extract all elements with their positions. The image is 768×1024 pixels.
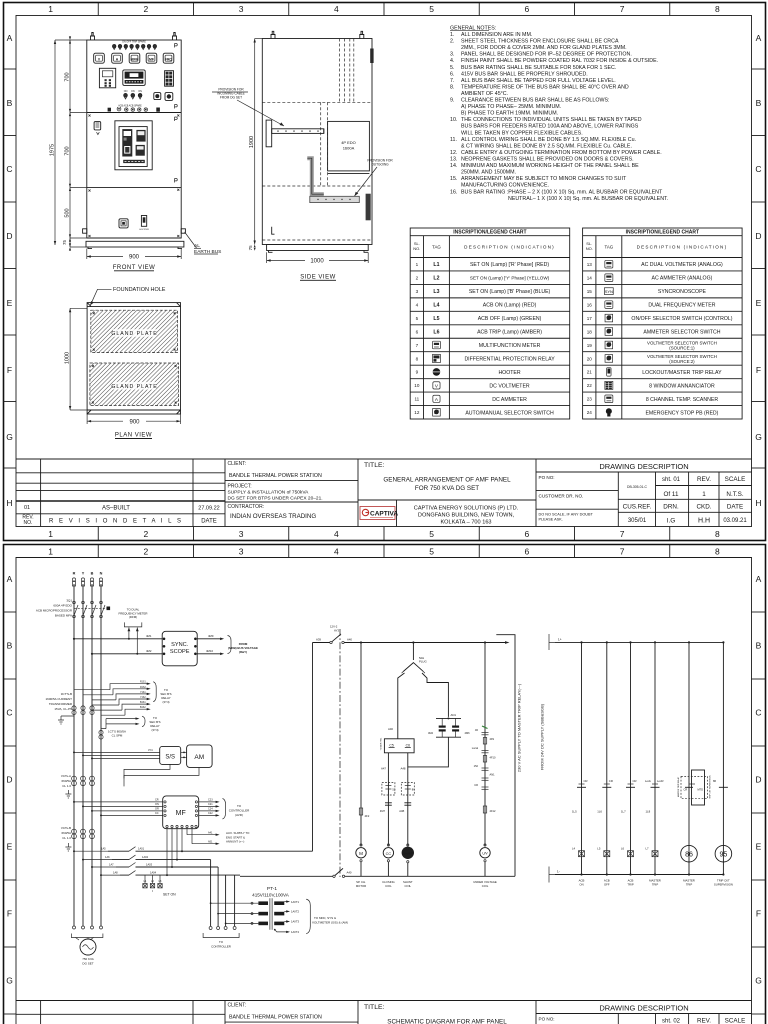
svg-text:MTD: MTD <box>698 788 704 792</box>
spring charge motor branch <box>360 643 362 846</box>
svg-text:AM: AM <box>194 754 204 761</box>
svg-text:B1S1: B1S1 <box>140 702 146 704</box>
svg-text:HOOTER: HOOTER <box>498 370 520 376</box>
svg-text:WILL BE TAKEN BY COPPER FLEXIB: WILL BE TAKEN BY COPPER FLEXIBLE CABLES. <box>461 130 583 136</box>
UV coil <box>484 844 486 846</box>
dim 900 <box>86 249 88 259</box>
svg-text:AMMETER SELECTOR SWITCH: AMMETER SELECTOR SWITCH <box>643 330 720 336</box>
DC supply bracket L+ <box>549 634 555 650</box>
svg-text:95: 95 <box>720 852 728 859</box>
svg-text:AY3: AY3 <box>334 629 340 633</box>
general notes text block <box>450 26 668 202</box>
svg-text:A: A <box>7 33 13 43</box>
svg-text:BANDLE THERMAL POWER STATION: BANDLE THERMAL POWER STATION <box>229 473 322 479</box>
svg-text:2.: 2. <box>450 39 454 45</box>
svg-text:VOLTMETER (S/S) & (AM): VOLTMETER (S/S) & (AM) <box>312 921 348 925</box>
shunt trip coil <box>407 844 409 846</box>
svg-text:FINISH PAINT SHALL BE POWDER C: FINISH PAINT SHALL BE POWDER COATED RAL … <box>461 58 658 64</box>
svg-text:ACB MICROPROCESSOR: ACB MICROPROCESSOR <box>36 609 73 613</box>
svg-text:MF: MF <box>149 57 154 61</box>
door handle <box>370 49 373 64</box>
svg-text:1A7: 1A7 <box>109 863 114 867</box>
meter buttons row <box>94 53 105 63</box>
svg-text:5: 5 <box>429 529 434 539</box>
svg-text:4M1: 4M1 <box>146 634 152 638</box>
svg-text:DESCRIPTION (INDICATION): DESCRIPTION (INDICATION) <box>464 245 555 250</box>
svg-text:CC: CC <box>386 852 392 856</box>
svg-text:REV.: REV. <box>697 476 711 483</box>
svg-text:CKD.: CKD. <box>696 504 711 511</box>
svg-text:2: 2 <box>144 4 149 14</box>
VT group A label <box>61 774 71 788</box>
svg-text:TO AVR TML: TO AVR TML <box>380 737 383 751</box>
svg-text:G: G <box>755 976 762 986</box>
svg-text:NO.: NO. <box>413 246 420 251</box>
bottom door components <box>119 219 128 228</box>
CT secondary wires to relay <box>110 684 149 690</box>
svg-text:HOOTER: HOOTER <box>139 229 149 231</box>
svg-text:L-: L- <box>557 870 560 874</box>
svg-text:L6: L6 <box>433 330 439 336</box>
svg-text:ALL DIMENSION ARE IN MM.: ALL DIMENSION ARE IN MM. <box>461 32 532 38</box>
svg-text:27.09.22: 27.09.22 <box>198 506 219 512</box>
indicating lamp L5 <box>604 851 610 857</box>
svg-text:12: 12 <box>414 410 420 415</box>
svg-text:A48: A48 <box>401 767 406 771</box>
svg-text:17: 17 <box>587 316 593 321</box>
svg-text:3: 3 <box>239 529 244 539</box>
svg-text:L4: L4 <box>433 303 439 309</box>
closing coil CC <box>387 844 389 846</box>
svg-text:EMERGENCY STOP PB (RED): EMERGENCY STOP PB (RED) <box>645 410 718 416</box>
svg-text:11.: 11. <box>450 137 457 143</box>
svg-text:14.: 14. <box>450 163 457 169</box>
svg-text:DUAL FREQUENCY METER: DUAL FREQUENCY METER <box>648 303 715 309</box>
svg-text:U/V: U/V <box>482 852 488 856</box>
svg-text:FRQ: FRQ <box>165 57 173 61</box>
svg-text:H.H: H.H <box>698 518 710 525</box>
svg-text:A51: A51 <box>208 840 213 843</box>
wire R to sync scope <box>74 638 162 640</box>
sheet border outer <box>4 3 766 541</box>
arrows to DFM <box>128 628 130 639</box>
svg-text:AS–BUILT: AS–BUILT <box>102 506 130 512</box>
svg-text:4F12: 4F12 <box>490 809 496 813</box>
MF right pins to controller <box>195 801 197 803</box>
svg-text:4M2: 4M2 <box>146 649 152 653</box>
svg-text:OFF: OFF <box>604 883 610 887</box>
wire rail 1A01 <box>108 850 129 852</box>
svg-text:AUTO/MANUAL SELECTOR SWITCH: AUTO/MANUAL SELECTOR SWITCH <box>465 410 554 416</box>
door divider 2 <box>87 186 181 188</box>
svg-text:PO NO:: PO NO: <box>539 475 555 480</box>
dim 1900 <box>254 39 256 245</box>
svg-text:TRIP: TRIP <box>686 883 693 887</box>
svg-text:8: 8 <box>715 547 720 557</box>
svg-text:16.: 16. <box>450 189 457 195</box>
door hinge marks P <box>175 44 178 48</box>
indicating lamp L7 <box>652 851 658 857</box>
svg-text:F: F <box>756 909 761 919</box>
svg-text:C21: C21 <box>208 803 213 806</box>
svg-text:G: G <box>755 432 762 442</box>
svg-text:SCALE: SCALE <box>725 476 746 483</box>
svg-text:MFM: MFM <box>131 57 139 61</box>
svg-text:10: 10 <box>414 383 420 388</box>
svg-text:TO: TO <box>237 804 242 808</box>
svg-text:3Q1: 3Q1 <box>66 599 72 603</box>
svg-text:1A01: 1A01 <box>138 847 145 851</box>
CT 3CTs-B label <box>45 692 72 711</box>
svg-text:CR: CR <box>584 779 588 783</box>
indicator lamps L1-L6 row <box>112 44 116 48</box>
svg-text:VCTs-B: VCTs-B <box>61 826 71 830</box>
ACB tie bar <box>74 607 107 609</box>
svg-text:ANNUNT (+--): ANNUNT (+--) <box>226 840 244 844</box>
svg-text:A39: A39 <box>316 638 321 642</box>
svg-text:13: 13 <box>587 262 593 267</box>
svg-text:6: 6 <box>525 529 530 539</box>
protection relay <box>99 68 115 88</box>
svg-text:75: 75 <box>62 240 67 246</box>
svg-text:SET ON (Lamp) ['Y' Phase] (YEL: SET ON (Lamp) ['Y' Phase] (YELLOW) <box>470 276 550 281</box>
svg-text:CAPTIVA: CAPTIVA <box>370 511 398 518</box>
svg-text:CL 1.0: CL 1.0 <box>62 784 71 788</box>
side hinges <box>83 229 87 233</box>
ACB 3Q1 switch contacts <box>73 601 76 604</box>
svg-text:4: 4 <box>416 302 419 307</box>
svg-text:TRIP: TRIP <box>652 883 659 887</box>
svg-text:GLAND PLATE: GLAND PLATE <box>111 384 157 390</box>
door divider 1 <box>87 112 181 114</box>
coil branch verticals <box>387 753 389 846</box>
svg-text:13.: 13. <box>450 157 457 163</box>
svg-text:H: H <box>755 498 761 508</box>
aux contacts 52a 52b <box>382 783 395 796</box>
svg-text:DB-305-01-C: DB-305-01-C <box>627 485 648 489</box>
svg-text:Local: Local <box>472 746 479 750</box>
aux supply wires <box>186 828 188 835</box>
MF multifunction meter <box>163 796 199 829</box>
svg-text:SYN: SYN <box>605 289 613 294</box>
svg-text:L5: L5 <box>433 316 439 322</box>
base channel <box>86 241 184 247</box>
MF bottom wires to control rails <box>166 828 168 876</box>
svg-text:TRIP: TRIP <box>627 883 634 887</box>
support steps <box>307 158 324 194</box>
svg-text:E: E <box>7 842 13 852</box>
svg-text:AC AMMETER (ANALOG): AC AMMETER (ANALOG) <box>652 276 713 282</box>
svg-text:FROM 24V DC SUPPLY (SBB&SGB): FROM 24V DC SUPPLY (SBB&SGB) <box>540 703 545 770</box>
svg-text:N: N <box>100 572 103 576</box>
rail taps from buses <box>74 851 120 875</box>
svg-text:DRN.: DRN. <box>663 504 679 511</box>
svg-text:L6: L6 <box>621 847 625 851</box>
svg-text:R1S1: R1S1 <box>140 682 146 684</box>
svg-text:CL 1.0: CL 1.0 <box>62 836 71 840</box>
svg-text:FOR 750 KVA DG SET: FOR 750 KVA DG SET <box>415 485 479 492</box>
svg-text:BASED MFA: BASED MFA <box>55 614 72 618</box>
svg-text:(3Y4): (3Y4) <box>151 728 158 732</box>
svg-text:C: C <box>6 708 12 718</box>
svg-text:1000: 1000 <box>65 352 71 364</box>
bracket MDB <box>228 636 232 654</box>
svg-text:C23: C23 <box>208 799 213 802</box>
svg-text:ON: ON <box>124 90 128 93</box>
svg-text:CC: CC <box>155 812 159 815</box>
svg-text:MANUFACTURING CONVENIENCE.: MANUFACTURING CONVENIENCE. <box>461 183 549 189</box>
cubicle outline <box>262 39 372 245</box>
svg-text:Y1S1: Y1S1 <box>140 692 146 694</box>
isolator switch AY3 <box>330 641 332 643</box>
svg-text:F: F <box>756 365 761 375</box>
wire PT primary tap 3 <box>226 922 259 924</box>
lifting eyebolt left <box>91 33 95 41</box>
svg-text:ACB TRIP (Lamp) (AMBER): ACB TRIP (Lamp) (AMBER) <box>477 330 542 336</box>
contact CR <box>602 786 611 788</box>
phase bus B <box>91 584 93 926</box>
svg-text:S/S: S/S <box>165 755 175 761</box>
cable duct dashed <box>262 39 372 241</box>
S/S selector <box>160 746 181 764</box>
svg-text:MF: MF <box>176 810 186 817</box>
svg-text:3CT'S-B: 3CT'S-B <box>61 692 72 696</box>
svg-text:C22: C22 <box>208 812 213 815</box>
wire AM to VT taps <box>124 767 199 786</box>
svg-text:3: 3 <box>416 289 419 294</box>
svg-text:INSCRIPTION/LEGEND CHART: INSCRIPTION/LEGEND CHART <box>453 229 526 235</box>
earth hook <box>272 227 275 235</box>
door stiffener <box>366 194 371 221</box>
svg-text:BUS BARS FOR FEEDERS RATED 100: BUS BARS FOR FEEDERS RATED 100A AND ABOV… <box>461 124 639 130</box>
svg-text:6: 6 <box>416 329 419 334</box>
indicating lamp L4 <box>579 851 585 857</box>
motor M <box>360 844 362 846</box>
svg-text:B: B <box>756 98 762 108</box>
svg-text:3Y4: 3Y4 <box>148 748 153 752</box>
svg-text:ALL BUS BAR SHALL BE TAPPED FO: ALL BUS BAR SHALL BE TAPPED FOR FULL VOL… <box>461 78 616 84</box>
lamps row 2 <box>124 93 128 97</box>
svg-text:L4: L4 <box>572 847 576 851</box>
wires sync scope to MDB bus voltage <box>197 638 222 640</box>
VT group B label <box>61 826 71 840</box>
svg-text:CLEARANCE BETWEEN BUS BAR SHAL: CLEARANCE BETWEEN BUS BAR SHALL BE AS FO… <box>461 98 609 104</box>
svg-text:L5: L5 <box>597 847 601 851</box>
svg-text:15: 15 <box>587 289 593 294</box>
lamp circuit branch 6 <box>722 642 724 874</box>
svg-text:SHEET STEEL THICKNESS FOR ENCL: SHEET STEEL THICKNESS FOR ENCLOSURE SHAL… <box>461 39 619 45</box>
svg-text:3.: 3. <box>450 52 454 58</box>
svg-text:TAG: TAG <box>432 245 441 250</box>
svg-text:8: 8 <box>715 529 720 539</box>
svg-text:9: 9 <box>416 370 419 375</box>
title block sheet 2 (partial) <box>16 1001 752 1024</box>
svg-text:A40: A40 <box>347 638 352 642</box>
sheet border outer <box>4 545 766 1024</box>
svg-text:F: F <box>7 365 12 375</box>
svg-text:2MM., FOR DOOR & COVER 2MM. AN: 2MM., FOR DOOR & COVER 2MM. AND FOR GLAN… <box>461 45 627 51</box>
svg-text:ARRANGEMENT MAY BE SUBJECT TO: ARRANGEMENT MAY BE SUBJECT TO MINOR CHAN… <box>461 176 627 182</box>
svg-text:ON/OFF SELECTOR SWITCH (CONTRO: ON/OFF SELECTOR SWITCH (CONTROL) <box>631 316 732 322</box>
svg-text:Y1S2: Y1S2 <box>140 697 146 699</box>
generator G1 <box>73 926 76 929</box>
svg-text:CL SPM: CL SPM <box>112 734 123 738</box>
svg-text:1A6: 1A6 <box>105 855 110 859</box>
svg-text:D: D <box>755 775 761 785</box>
wire rail 1A03 <box>116 866 129 868</box>
svg-text:D: D <box>755 231 761 241</box>
sheet border inner <box>16 558 752 1024</box>
svg-text:700: 700 <box>65 146 71 155</box>
svg-text:L3: L3 <box>433 289 439 295</box>
earth ct common <box>58 716 74 724</box>
contact CR <box>626 786 635 788</box>
svg-text:A41: A41 <box>208 831 213 834</box>
svg-text:BANDLE THERMAL POWER STATION: BANDLE THERMAL POWER STATION <box>229 1015 322 1021</box>
svg-text:N.T.S.: N.T.S. <box>726 491 743 498</box>
busbar support <box>266 120 272 147</box>
svg-text:TO MFD, SYS &: TO MFD, SYS & <box>314 916 336 920</box>
svg-text:15VA, CL-PS: 15VA, CL-PS <box>54 707 72 711</box>
svg-text:OUTGOING: OUTGOING <box>371 163 389 167</box>
bracket to SEC B relay <box>153 682 156 702</box>
DC positive bus <box>555 641 723 643</box>
svg-text:DATE: DATE <box>727 504 743 511</box>
svg-text:PO NO:: PO NO: <box>539 1017 555 1022</box>
svg-text:CR: CR <box>633 779 637 783</box>
svg-text:1A5: 1A5 <box>101 847 106 851</box>
svg-text:MULTIFUNCTION METER: MULTIFUNCTION METER <box>479 343 541 349</box>
svg-text:4M7: 4M7 <box>380 809 386 813</box>
svg-text:03.09.21: 03.09.21 <box>723 518 747 524</box>
svg-text:5: 5 <box>429 4 434 14</box>
trip supervision relay 95 <box>715 845 732 862</box>
svg-text:PROJECT:: PROJECT: <box>228 484 252 490</box>
lamp circuit branch 5 <box>688 642 690 874</box>
svg-text:1600/5A CURRENT: 1600/5A CURRENT <box>45 697 72 701</box>
svg-text:Y: Y <box>82 572 85 576</box>
svg-text:B: B <box>7 641 13 651</box>
svg-text:19: 19 <box>587 343 593 348</box>
svg-text:C: C <box>755 708 761 718</box>
svg-text:A: A <box>7 574 13 584</box>
svg-text:1L8: 1L8 <box>646 810 651 814</box>
svg-text:AC DUAL VOLTMETER (ANALOG): AC DUAL VOLTMETER (ANALOG) <box>641 262 723 268</box>
panel boundary dash-dot <box>339 629 341 877</box>
svg-text:1.: 1. <box>450 32 454 38</box>
svg-text:Of 11: Of 11 <box>664 491 679 498</box>
wires to S/S meter <box>74 751 160 753</box>
anti pump capacitors <box>436 717 461 719</box>
svg-text:PLUG: PLUG <box>419 660 427 664</box>
lifting eyebolt right <box>173 33 177 41</box>
master trip relay 86 coil assembly <box>692 770 705 805</box>
svg-text:CR: CR <box>155 799 159 802</box>
inscription/legend chart <box>583 228 743 419</box>
annunciator window <box>165 71 174 87</box>
svg-text:7: 7 <box>620 529 625 539</box>
svg-text:4M10: 4M10 <box>206 649 213 653</box>
wire B to sync scope <box>92 653 162 655</box>
svg-text:CONTROLLER: CONTROLLER <box>229 809 250 813</box>
svg-text:4M6: 4M6 <box>465 731 471 735</box>
svg-text:R E V I S I O N D E T A I L: R E V I S I O N D E T A I L S <box>49 519 183 525</box>
svg-text:11: 11 <box>414 397 419 402</box>
svg-text:4: 4 <box>334 547 339 557</box>
svg-text:86: 86 <box>713 779 717 783</box>
svg-text:SET ON: SET ON <box>163 893 176 897</box>
svg-text:DG SET FOR BTPS UNDER CAPEX 20: DG SET FOR BTPS UNDER CAPEX 20–21. <box>228 496 323 502</box>
svg-text:900: 900 <box>129 419 140 425</box>
svg-text:Lock: Lock <box>645 779 652 783</box>
multifunction meter <box>123 70 145 86</box>
bottom door edge <box>87 237 181 239</box>
svg-text:750 KVA: 750 KVA <box>82 957 94 961</box>
svg-text:PANEL SHALL BE DESIGNED FOR IP: PANEL SHALL BE DESIGNED FOR IP–52 DEGREE… <box>461 52 632 58</box>
svg-text:NEUTRAL– 1 X (100 X 10) Sq. mm: NEUTRAL– 1 X (100 X 10) Sq. mm. AL BUSBA… <box>508 196 668 202</box>
svg-text:152: 152 <box>474 764 479 768</box>
svg-text:1AVT2: 1AVT2 <box>291 910 300 914</box>
TNC switch <box>94 122 101 130</box>
svg-text:A: A <box>756 33 762 43</box>
label AL EARTH BUS <box>185 232 197 248</box>
svg-text:01: 01 <box>24 505 30 511</box>
svg-text:2: 2 <box>144 529 149 539</box>
svg-text:16: 16 <box>587 302 593 307</box>
wires to MF left pins <box>74 801 163 803</box>
wire PT primary tap 1 <box>211 902 259 904</box>
svg-text:415V BUS BAR SHALL BE PROPERLY: 415V BUS BAR SHALL BE PROPERLY SHROUDED. <box>461 71 588 77</box>
indicating lamp L6 <box>628 851 634 857</box>
svg-text:1L5: 1L5 <box>572 810 577 814</box>
ACB cutout <box>115 121 152 170</box>
svg-text:REV.: REV. <box>697 1018 711 1024</box>
svg-text:15.: 15. <box>450 176 457 182</box>
svg-text:4F10: 4F10 <box>490 756 496 760</box>
svg-text:CR: CR <box>609 779 613 783</box>
svg-text:(DFM): (DFM) <box>129 615 137 619</box>
svg-text:NO.: NO. <box>586 246 593 251</box>
svg-text:DC AMMETER: DC AMMETER <box>492 397 527 403</box>
svg-text:INSCRIPTION/LEGEND CHART: INSCRIPTION/LEGEND CHART <box>626 229 699 235</box>
closing branch <box>398 673 405 739</box>
base <box>267 245 369 251</box>
svg-text:BUS BAR RATING :PHASE – 2 X: BUS BAR RATING :PHASE – 2 X (100 X 10) S… <box>461 189 663 195</box>
svg-text:G: G <box>6 432 13 442</box>
svg-text:PT-1: PT-1 <box>267 886 277 892</box>
earth VT A <box>65 790 71 798</box>
svg-text:7: 7 <box>620 547 625 557</box>
svg-text:660/5A: 660/5A <box>61 831 71 835</box>
svg-text:250MM. AND 1500MM.: 250MM. AND 1500MM. <box>461 170 516 176</box>
under voltage branch <box>484 643 486 846</box>
svg-text:ON: ON <box>138 90 142 93</box>
svg-text:GENERAL ARRANGEMENT OF AMF PAN: GENERAL ARRANGEMENT OF AMF PANEL <box>383 477 511 484</box>
svg-text:COIL: COIL <box>385 884 392 888</box>
svg-text:E: E <box>756 842 762 852</box>
small controls row <box>108 108 111 112</box>
svg-text:1L6: 1L6 <box>597 810 602 814</box>
svg-text:1: 1 <box>48 547 53 557</box>
svg-text:(R&Y): (R&Y) <box>239 650 247 654</box>
svg-text:SUPPLY & INSTALLATION of 750kV: SUPPLY & INSTALLATION of 750kVA <box>228 490 310 496</box>
svg-text:SET ON (Lamp) ['R' Phase] (RED: SET ON (Lamp) ['R' Phase] (RED) <box>470 262 549 268</box>
svg-text:6: 6 <box>525 4 530 14</box>
svg-text:1L7: 1L7 <box>621 810 626 814</box>
series capacitors <box>385 802 392 804</box>
incomer fuse links <box>72 578 75 581</box>
svg-text:LocR: LocR <box>657 779 664 783</box>
